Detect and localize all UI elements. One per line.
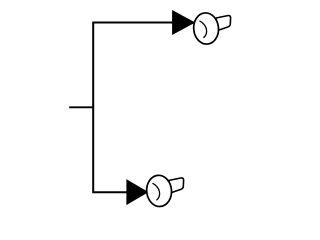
triangle (bottom buffer) <box>127 180 148 204</box>
lamp L1 (top) <box>192 12 230 45</box>
triangle (top buffer) <box>173 11 195 34</box>
lamp L2 (bottom) <box>145 174 183 207</box>
wire: main bus with top and bottom branches <box>93 23 173 193</box>
wire: input stub <box>69 106 93 108</box>
